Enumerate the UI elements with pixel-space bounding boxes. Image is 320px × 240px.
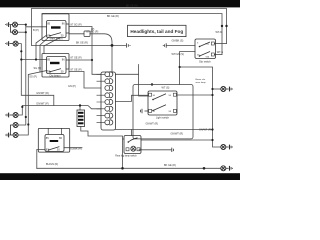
wire dipswitch to bus2	[215, 54, 223, 56]
svg-text:WT-S: WT-S	[217, 51, 224, 54]
light switch unit enclosure	[133, 85, 193, 139]
node light switch top junction	[151, 83, 153, 85]
svg-text:87 GE (P): 87 GE (P)	[71, 57, 82, 60]
node tail wire junction	[211, 128, 213, 130]
svg-text:Light switch: Light switch	[156, 116, 170, 119]
fuse strip F1	[77, 110, 85, 127]
terminator dip feed	[163, 43, 166, 47]
node front lamp bus junction A	[20, 50, 22, 52]
svg-text:SG (P): SG (P)	[29, 75, 37, 78]
wire supply bus 2 (top)	[42, 14, 222, 55]
node relay2 output junction	[91, 59, 93, 61]
node fused feed junction	[111, 44, 114, 47]
headlamp main R	[11, 25, 18, 35]
svg-text:GN/WT (R): GN/WT (R)	[36, 92, 49, 95]
node warn lamp junction	[211, 88, 213, 90]
wire relay2 out B to strip	[69, 72, 101, 89]
svg-text:GN/WT (P): GN/WT (P)	[199, 128, 211, 131]
wire supply bus 1 (top)	[32, 9, 227, 46]
wire fuse riser	[79, 106, 81, 111]
svg-text:WT/GN (S): WT/GN (S)	[172, 53, 185, 56]
wire fog switch right	[141, 139, 213, 141]
svg-text:LG/BK (R): LG/BK (R)	[70, 147, 82, 150]
svg-text:87 GE (P): 87 GE (P)	[71, 69, 82, 72]
number plate lamp	[221, 166, 233, 171]
wire relay1 switch drop B	[36, 36, 46, 60]
wire fog switch top drop	[131, 130, 133, 136]
light switch ground terminator	[141, 109, 148, 114]
dip beam relay U2	[42, 54, 69, 78]
svg-text:Headlights, tail and Fog: Headlights, tail and Fog	[130, 29, 183, 34]
wire fog switch lower right	[139, 149, 171, 151]
svg-text:WT-R: WT-R	[216, 31, 223, 34]
headlamp dip R	[11, 123, 19, 136]
node dip bus junction A	[25, 116, 27, 118]
dip switch S2	[195, 39, 216, 59]
svg-text:Main beam: Main beam	[50, 37, 63, 41]
wire lamp bus left	[18, 25, 26, 125]
wire lamp stub b	[18, 31, 26, 33]
wire fused feed to terminator	[32, 44, 126, 46]
wire front lamp bus	[18, 44, 54, 106]
svg-text:BK GE (R): BK GE (R)	[164, 164, 176, 167]
wire relay1 out A	[69, 27, 101, 75]
svg-text:BU/GN (R): BU/GN (R)	[46, 163, 58, 166]
inline connector C1	[84, 31, 90, 37]
node front lamp bus junction B	[20, 58, 22, 60]
node earth run junction B	[203, 167, 206, 170]
fog relay U3	[38, 128, 69, 152]
terminator fused feed	[127, 43, 131, 47]
wire relay2 coil feed	[21, 59, 46, 61]
fog lamp front	[5, 133, 18, 138]
wire side lamp feed	[180, 67, 221, 147]
svg-text:Dip beam: Dip beam	[49, 73, 60, 77]
wire tail feed	[18, 106, 101, 116]
tail lamp	[221, 145, 233, 150]
svg-text:warn lamp: warn lamp	[196, 81, 207, 84]
node fuse feed junction	[79, 104, 81, 106]
svg-text:Beam s/w: Beam s/w	[196, 79, 206, 81]
headlamp front side	[5, 41, 18, 46]
wire relay2 87 diagonal to fog lamp	[18, 71, 47, 136]
svg-text:Rear fog lamp switch: Rear fog lamp switch	[115, 154, 137, 157]
top black bar	[0, 0, 240, 7]
title box	[128, 25, 187, 36]
wire fog relay out	[64, 147, 82, 149]
wire relay1 out B	[69, 34, 112, 46]
wire light switch feed	[139, 65, 148, 97]
node main lamp L junction	[25, 24, 27, 26]
svg-text:GN/BK (S): GN/BK (S)	[172, 39, 184, 42]
wire fog relay drop	[37, 150, 45, 169]
headlamp main L	[5, 22, 17, 27]
svg-text:GN/WT (P): GN/WT (P)	[36, 102, 48, 105]
svg-text:B (P): B (P)	[33, 29, 39, 32]
wire fuse out to fog switch	[81, 127, 124, 140]
wire relay1 coil feed	[26, 26, 47, 28]
svg-text:Dip switch: Dip switch	[199, 60, 211, 63]
wire relay1 switch drop A	[40, 38, 49, 73]
wire strip tail out	[116, 129, 213, 131]
wire relay2 out A	[69, 59, 92, 61]
node earth run junction A	[121, 167, 124, 170]
node tail feed junction	[21, 106, 23, 108]
node bus2 right junction	[221, 25, 223, 27]
svg-text:BK GE (R): BK GE (R)	[76, 42, 88, 45]
wire strip riser	[111, 45, 113, 72]
svg-text:87 SG (P): 87 SG (P)	[71, 24, 82, 27]
wire strip to lightswitch	[116, 95, 149, 101]
wire dipswitch to bus1	[215, 43, 227, 45]
svg-text:WT (S): WT (S)	[162, 86, 170, 89]
node light switch 56 junction	[211, 94, 213, 96]
svg-text:BK GE (R): BK GE (R)	[107, 15, 119, 18]
main beam relay U1	[42, 14, 69, 41]
node relay2 coil feed junction	[35, 58, 37, 60]
svg-text:GN/WT (R): GN/WT (R)	[171, 133, 184, 136]
wire dip terminator feed	[167, 45, 195, 47]
connector strip X1	[101, 72, 116, 130]
fog lamp switch S3	[124, 136, 141, 154]
node bus1 right junction	[225, 25, 227, 27]
wire fog switch riser	[122, 140, 124, 169]
svg-text:GN/WT (R): GN/WT (R)	[146, 122, 159, 125]
light switch S1	[148, 91, 177, 115]
svg-text:GN (P): GN (P)	[68, 85, 76, 88]
svg-text:BK GE (R): BK GE (R)	[126, 4, 138, 7]
node side lamp feed junction	[179, 66, 181, 68]
wire lightswitch right pin	[177, 94, 213, 96]
switch pivot dots	[48, 35, 201, 151]
svg-text:(P): (P)	[91, 28, 95, 31]
bottom black bar	[0, 173, 240, 180]
wire bottom earth run	[37, 167, 221, 169]
headlamp dip L	[5, 113, 18, 118]
wire relay1 switch drop C	[44, 38, 60, 54]
terminator fog switch	[172, 148, 174, 152]
node main lamp R junction	[25, 31, 27, 33]
wire labels	[29, 4, 223, 167]
beam warn label	[196, 79, 207, 84]
node fog bus junction	[27, 123, 29, 125]
wire beam warn lamp	[213, 88, 221, 90]
wire lightswitch top feed	[180, 52, 195, 85]
wire strip row1 out	[116, 73, 139, 75]
main beam warning lamp	[221, 87, 233, 92]
svg-text:SG (P): SG (P)	[34, 67, 42, 70]
node fog switch out junction	[211, 139, 213, 141]
